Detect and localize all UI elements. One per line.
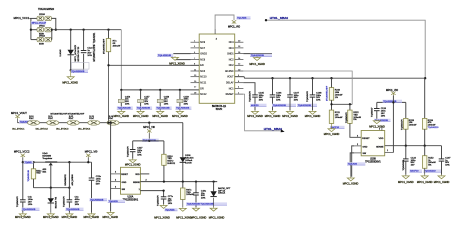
svg-text:100mW: 100mW [335,117,343,119]
diode D30 [48,198,54,203]
capacitor C126 [374,102,387,119]
wire divider mid [332,100,353,110]
svg-text:MPC1_XGND: MPC1_XGND [103,216,119,219]
net label MPC1_VCC2 [14,149,30,153]
svg-text:TQ4-N2S10B: TQ4-N2S10B [156,108,170,110]
svg-text:TQ4141219: TQ4141219 [428,127,439,129]
svg-text:10%: 10% [294,100,298,102]
svg-text:MT1608TELHHF TQ4-N2S1: MT1608TELHHF TQ4-N2S1 [94,32,96,62]
svg-text:TQ4-N2S10B: TQ4-N2S10B [273,105,287,107]
wire EN [109,64,200,66]
svg-text:10%: 10% [316,100,320,102]
bead row1 value text [39,14,46,24]
blue label R211 [330,126,345,129]
capacitor C159 [175,90,191,110]
wire U20A left pins down [110,123,112,212]
net label MPC1_VOUT [11,111,27,115]
blue label R22x [24,161,33,164]
ground C158 [152,110,168,118]
power flag MPC1_VI0 left [86,154,90,163]
junction VDD rail [148,140,150,142]
capacitor C107 [287,78,317,110]
wire R210b to sense [163,165,165,181]
DNI box [72,63,90,70]
wire U1 VCC top [215,15,234,29]
svg-text:IAC_BYDC3: IAC_BYDC3 [56,128,69,131]
svg-text:NC2: NC2 [229,59,234,62]
net label IAC_BYDC3 [78,128,91,131]
svg-text:NC10: NC10 [200,76,207,79]
junction reg bus2 [50,187,71,189]
junction left bus [120,89,181,91]
wire U20A VDD [140,173,149,175]
wire SENSE U20B [385,145,442,147]
svg-text:TQ4343476: TQ4343476 [346,112,348,123]
resistor R152 [423,146,437,169]
svg-text:TQ4-N2S10B: TQ4-N2S10B [90,199,104,201]
cap C1 rotated label [94,32,96,62]
svg-text:BZX38-C10V 25: BZX38-C10V 25 [78,46,80,61]
ground C227 [125,159,141,167]
blue label at gnd1 [71,70,89,73]
svg-text:TQ4-N2S10B: TQ4-N2S10B [383,101,397,103]
ground label 1 [62,81,78,84]
svg-text:MPC1_VOUT: MPC1_VOUT [11,111,27,115]
svg-text:DELAY: DELAY [226,82,234,85]
svg-text:10%: 10% [125,104,129,106]
cap C108 rotated label [307,90,309,101]
blue label chain [19,120,32,123]
svg-text:MPC1_XGND: MPC1_XGND [324,133,340,136]
capacitor C107b [439,146,452,175]
wire D206 down [182,162,184,181]
svg-text:SENSE: SENSE [376,146,384,148]
svg-text:NC4: NC4 [229,47,234,50]
ground U20A pins [103,211,119,219]
resistor R223 [404,102,418,129]
wire R1 down to chain [108,52,110,123]
svg-text:MPC1_XGND: MPC1_XGND [62,216,78,219]
resistor R210b [162,141,176,165]
resistor R211 [329,110,343,123]
svg-text:EN: EN [200,64,204,67]
svg-text:10%: 10% [201,198,205,200]
blue label u20a left [108,200,125,203]
D20x value [218,187,231,195]
svg-text:MPC1_XGND: MPC1_XGND [152,115,168,118]
svg-text:NC1: NC1 [229,87,234,90]
wire U20B gnd [350,146,354,177]
svg-text:MPC1_XGND: MPC1_XGND [398,181,414,184]
svg-text:TQ4343476: TQ4343476 [128,146,130,157]
wire reg bus2 [34,187,70,189]
svg-text:MPC1_XGND: MPC1_XGND [15,216,31,219]
svg-text:TQ4343476: TQ4343476 [250,90,252,101]
svg-text:10%: 10% [259,100,263,102]
net arrow HTOL lower [281,129,285,132]
wire main top rail [52,29,122,31]
wire NC8 to ground [175,57,191,59]
wire diode D1 down [70,55,72,70]
capacitor C106 [270,78,296,110]
resistor R1 value [113,41,121,48]
svg-text:MT1608TELHHF: MT1608TELHHF [103,38,105,54]
svg-text:10%: 10% [144,104,148,106]
svg-text:10%: 10% [276,100,280,102]
R223 rotated label [401,119,403,130]
svg-text:MPC1_XGND: MPC1_XGND [133,115,149,118]
svg-text:LL4148: LL4148 [60,49,62,57]
svg-text:IAC_BYDC2: IAC_BYDC2 [36,128,49,131]
capacitor C19 [193,182,207,207]
svg-text:NC2: NC2 [229,64,234,67]
wire to cap C1 [83,30,85,51]
ground C19 [191,207,207,220]
svg-text:TQ4-N2S10B: TQ4-N2S10B [71,71,85,73]
wire to zener D30 [50,188,52,199]
svg-text:TQ4343476: TQ4343476 [307,90,309,101]
capacitor C41 [67,162,81,213]
svg-text:MT1608TELHHF MT1608TELHHF: MT1608TELHHF MT1608TELHHF [51,114,85,116]
wire R224 to sense [424,129,426,146]
capacitor C77 [161,196,174,205]
wire DELAY [243,83,255,95]
svg-text:MPC1_XGND: MPC1_XGND [209,217,225,220]
ferrite bead FB1b [45,16,52,20]
svg-text:MPC1_XGND: MPC1_XGND [191,217,207,220]
cap C1 value text [87,48,93,57]
svg-text:10%: 10% [381,115,385,117]
C40 rotated label [17,196,19,207]
ground C126 [369,120,385,129]
junction sense U20A [163,180,215,182]
bead row2 value text [39,26,46,36]
R22x rotated blue label [28,169,30,181]
resistor R224 [423,78,440,129]
ground C122 [398,175,414,184]
capacitor C227 [130,141,143,159]
capacitor C105 [250,92,266,110]
svg-text:NC12: NC12 [200,93,207,96]
svg-text:SENSE: SENSE [133,182,140,184]
svg-text:HTOL_SBA0: HTOL_SBA0 [264,127,283,131]
svg-text:TPS2553DBV1: TPS2553DBV1 [365,161,381,163]
blue net label GND2 [157,54,173,57]
capacitor C158 [156,90,172,110]
svg-text:TQ4-N2S10B: TQ4-N2S10B [298,105,312,107]
svg-text:16V: 16V [411,165,415,167]
junction right bus [271,77,426,79]
svg-text:TQ4-N2S: TQ4-N2S [348,164,358,166]
ferrite bead L10 [28,116,40,125]
net label IAC_BYDC1 [36,128,49,131]
svg-text:MPC1_XGND: MPC1_XGND [169,62,185,65]
ground C106 [265,110,281,118]
ground C159 [172,110,188,118]
svg-text:10%: 10% [445,165,449,167]
resistor R07 [181,182,195,200]
svg-text:MPC1_VCC1: MPC1_VCC1 [14,16,30,20]
svg-text:10%: 10% [75,204,79,206]
svg-text:ADJ/NC: ADJ/NC [225,70,234,73]
svg-text:TQ4-N2S10B: TQ4-N2S10B [66,209,80,211]
blue label VDD rail [142,139,159,142]
svg-text:TQ4-N2S10B: TQ4-N2S10B [22,209,36,211]
svg-text:200mW: 200mW [113,45,121,47]
junction top rail [70,29,110,31]
wire U20A pin1 [140,191,163,197]
ferrite bead FB2a [37,28,44,32]
net label IAC_BYDC2 [56,128,69,131]
wire HTOL top [266,20,425,78]
wire Q1 emitter [50,165,52,187]
blue net label VIO rail [383,100,403,103]
wire chain to D206 [182,123,184,158]
wire left bus [121,89,199,91]
svg-text:100mW: 100mW [409,125,417,127]
wire choke left column [31,18,37,39]
blue net label row1 [31,21,47,24]
junction U20A pin1 [162,189,164,191]
ferrite bead FB3b [45,37,52,41]
power flag MPC1_VIO top [232,20,236,24]
wire ADJ gray [243,71,352,104]
op-amp U1 transceiver [191,29,244,104]
svg-text:BAS316 7V5: BAS316 7V5 [54,196,57,208]
svg-text:NC8: NC8 [200,59,205,62]
wire VIO rail [377,101,406,103]
ground C157 [133,110,149,118]
capacitor C40 [20,162,33,213]
svg-text:4: 4 [115,172,116,174]
svg-text:MPC1_XGND: MPC1_XGND [43,216,59,219]
svg-text:MPC1_XGND: MPC1_XGND [84,216,100,219]
svg-text:IAUK20: IAUK20 [251,104,259,107]
blue label R152 [423,169,441,172]
ground R211 [324,123,340,136]
svg-text:MPC1_VI0: MPC1_VI0 [85,149,98,153]
svg-text:MPC1_XGND: MPC1_XGND [62,81,78,84]
diode D1 [68,50,74,55]
wire top rail drop [120,30,122,90]
power flag MPC1_VCC2 [21,154,25,163]
U20A refdes [123,196,139,202]
diode D1 label [60,49,62,57]
C41 rotated label [63,196,65,207]
ground D30 [43,203,59,219]
wire join diode cap [71,69,84,71]
svg-text:1: 1 [139,189,140,191]
C122 rotated label [403,159,405,170]
wire MPC1_VCC1 to choke [30,17,38,19]
net label MPC1_VCC1 [14,16,30,20]
svg-text:1FB11: 1FB11 [39,26,46,28]
svg-text:600R: 600R [39,44,44,46]
C126 rotated label [371,107,373,117]
Q1 pin text [43,168,47,173]
svg-text:TQ4-N2S10B: TQ4-N2S10B [137,108,151,110]
wire right bus VOUT [235,77,426,79]
svg-text:MPC1_XGND: MPC1_XGND [176,217,192,220]
svg-text:ADJ_NFB00: ADJ_NFB00 [71,173,74,185]
wire R222 to RESET [350,123,361,137]
svg-text:2: 2 [357,144,358,146]
svg-text:TPS2553DBV1: TPS2553DBV1 [123,200,139,202]
svg-text:MPC1_XGND: MPC1_XGND [417,181,433,184]
ferrite bead L14 [107,116,119,125]
U20B refdes [365,158,381,163]
reg rotated labels [65,173,74,185]
svg-text:50V: 50V [96,183,100,185]
ground R07 [176,200,192,220]
blue label C122 [410,169,423,172]
svg-text:5%: 5% [428,165,431,167]
svg-text:TQ4343476: TQ4343476 [158,195,160,206]
D206 value [185,155,194,164]
net name HTOL_SCA0 [264,127,283,131]
svg-text:10%: 10% [87,55,91,57]
svg-text:RESET: RESET [226,93,235,96]
op-amp U20A TPS2553 [111,167,147,194]
junction EN [107,64,109,66]
svg-text:IAC_BYDC1: IAC_BYDC1 [12,128,25,131]
svg-text:DR: DR [200,87,204,90]
ground C105 [247,110,263,118]
junction HTOL [265,19,267,21]
power flag MPC1_VIO right [386,89,398,153]
power flag MPC1_VOUT [15,115,19,123]
resistor R1 rotated label [103,38,105,54]
blue label C77 [165,208,178,211]
svg-text:TQ4343476: TQ4343476 [403,159,405,170]
svg-text:TQ4-N2S10B: TQ4-N2S10B [176,108,190,110]
junction divider [330,103,351,105]
ground MPC1_XGND u1-right [249,56,265,65]
svg-text:IAC_BYDC4: IAC_BYDC4 [78,128,91,131]
svg-text:2: 2 [146,179,147,181]
svg-text:10%: 10% [137,155,141,157]
junction chain [107,122,150,124]
D30 rotated label [54,196,57,208]
svg-text:TBD: TBD [36,173,41,175]
svg-text:VDD: VDD [379,138,384,140]
svg-text:MPC1_XGND: MPC1_XGND [172,115,188,118]
svg-text:SW: SW [122,189,125,191]
ferrite bead FB2b [45,28,52,32]
wire reg bus corner [91,162,93,178]
ferrite bead FB3a [37,37,44,41]
svg-text:MPC1_VIO: MPC1_VIO [386,89,398,92]
ground C108 [305,110,321,118]
svg-text:MPC1_XGND: MPC1_XGND [125,163,141,166]
svg-text:MPC1_XGND: MPC1_XGND [154,217,170,220]
junction VIO rail [392,101,394,103]
net label MPC1_VI0 left [85,149,98,153]
blue label U20B SW [347,162,365,165]
R210 rotated label [327,85,329,101]
svg-text:MPC1_NCA4 BZX: MPC1_NCA4 BZX [74,44,77,61]
power label MPC1_VIO [228,26,240,29]
svg-text:VDD: VDD [135,174,140,176]
wire R223 to sense [405,129,407,146]
U1 refdes label [212,105,227,111]
ground C41 [62,213,78,220]
svg-text:BD433M762: BD433M762 [65,173,67,185]
svg-text:3: 3 [115,186,116,188]
blue label C40 [22,208,40,211]
svg-text:1%: 1% [335,97,338,99]
svg-text:TQ4-N2S10B: TQ4-N2S10B [251,55,265,57]
svg-text:TQ4343476: TQ4343476 [401,119,403,130]
ground MPC1_XGND 1 [67,70,74,79]
svg-text:5: 5 [379,129,380,131]
svg-text:MT1608TELHHF: MT1608TELHHF [327,85,329,101]
svg-text:VOUT: VOUT [227,76,234,79]
svg-text:TQ4343476: TQ4343476 [63,196,65,207]
svg-text:Tregulator: Tregulator [42,157,52,160]
net label IAC_BYDC0 [12,128,25,131]
svg-text:MPC1_XGND: MPC1_XGND [282,115,298,118]
ferrite bead FB1a [37,16,44,20]
svg-text:TQ4-N2S: TQ4-N2S [165,209,175,211]
diode D20x [210,191,216,196]
svg-text:NC9: NC9 [200,41,205,44]
svg-text:MPC1_XGND: MPC1_XGND [249,63,265,66]
power label MPC1_VI0 mid [143,126,155,129]
svg-text:TQ4-N2S10B: TQ4-N2S10B [158,55,172,57]
svg-text:GND: GND [122,182,127,184]
svg-text:NC3: NC3 [200,70,205,73]
ground D20x [209,198,225,220]
capacitor C22x [89,176,102,213]
svg-text:MPC1_XGND: MPC1_XGND [305,115,321,118]
svg-text:TQ4-N2S: TQ4-N2S [237,18,247,20]
svg-text:GND2: GND2 [200,53,207,56]
resistor R1 [106,39,110,52]
ground C156 [114,110,130,118]
ground U20B [343,165,359,185]
svg-text:BD4: BD4 [43,171,47,173]
svg-text:TQ4343476: TQ4343476 [17,196,19,207]
R222 rotated label [346,112,348,123]
svg-text:HTOL_SBA0: HTOL_SBA0 [270,16,289,20]
ground MPC1_XGND u1-left [169,56,185,65]
svg-text:10%: 10% [164,104,168,106]
C77 rotated label [158,195,160,206]
svg-text:NC7: NC7 [200,47,205,50]
svg-text:TQ4-N2S10B: TQ4-N2S10B [118,108,132,110]
capacitor C108 [310,78,322,110]
svg-text:MPC1_XGND: MPC1_XGND [343,182,359,185]
svg-text:MPC1_XGND: MPC1_XGND [265,115,281,118]
svg-text:RESET: RESET [121,174,128,176]
wire VDD rail [133,140,164,142]
ground C40 [15,213,31,220]
wire to resistor R1 [108,30,110,39]
svg-text:GND1: GND1 [227,53,234,56]
svg-text:TDK/ACM4520: TDK/ACM4520 [38,8,55,11]
net name HTOL_SBA0 [270,16,289,20]
svg-text:MPC1_XGND: MPC1_XGND [434,181,450,184]
svg-text:4: 4 [357,136,358,138]
blue label lower mid [186,202,227,205]
wire row1 jog to main [51,18,55,29]
svg-text:2: 2 [115,179,116,181]
blue net label at U1 VCC [236,16,250,19]
wire U20A sense line [140,181,217,183]
label MT1608TELHHF [51,114,85,116]
wire R22x down [33,179,35,188]
